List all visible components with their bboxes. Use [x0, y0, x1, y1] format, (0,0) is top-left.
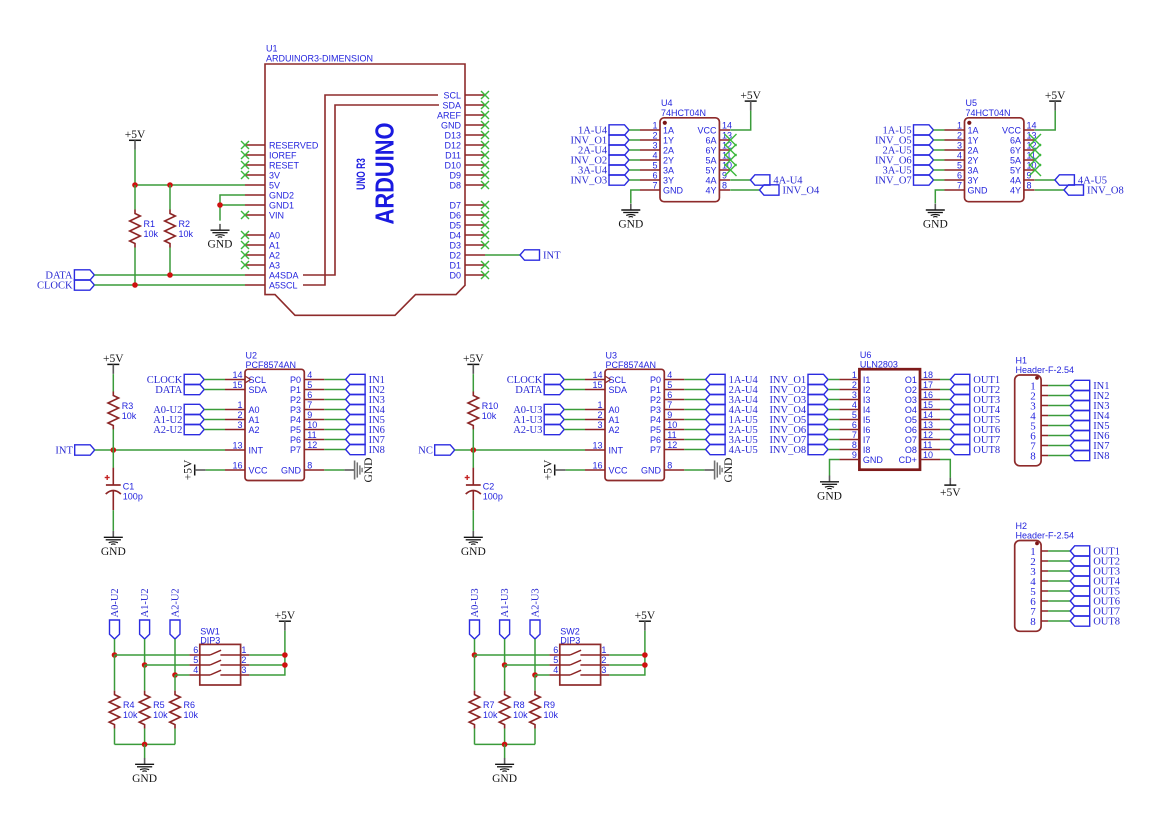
U1 pin A1	[245, 244, 265, 246]
capacitor C2 100p	[472, 468, 474, 485]
U4 pin 7 GND	[640, 189, 660, 191]
wire SW1 pin2	[249, 664, 285, 666]
SW2 pole 1 left lead pin 6	[549, 654, 570, 656]
SW2 pole 1 blade	[570, 650, 581, 655]
net port INV_O3	[609, 175, 629, 185]
net port A2-U2	[170, 620, 180, 639]
net port INV_O4	[760, 185, 780, 195]
net port CLOCK U3	[544, 374, 564, 384]
U5 pin 14 VCC	[1024, 129, 1035, 131]
net port A2-U2	[184, 424, 204, 434]
H1 pin 7	[1041, 445, 1048, 447]
svg-text:5: 5	[957, 161, 962, 171]
junction SW1 gnd	[142, 742, 148, 748]
svg-text:I2: I2	[863, 385, 871, 395]
wire +5V to R	[112, 374, 114, 392]
svg-text:6: 6	[307, 390, 312, 400]
svg-text:A1: A1	[269, 240, 280, 250]
svg-text:74HCT04N: 74HCT04N	[661, 108, 706, 118]
net port OUT5 at H2	[1070, 586, 1090, 596]
SW1 pole 2 blade	[210, 660, 221, 665]
wire D2 to INT	[485, 254, 520, 256]
wire SW1 pin1	[249, 654, 285, 656]
wire OUT6	[940, 429, 950, 431]
junction A1-U3/SW	[502, 662, 508, 668]
net port INV_O5	[914, 135, 934, 145]
wire C bottom	[472, 510, 474, 531]
U1 pin D6	[465, 214, 485, 216]
H1 pin 5	[1041, 425, 1048, 427]
no-connect U1 3V	[241, 171, 249, 179]
wire A1-U2 down	[144, 639, 146, 665]
IC U6 body	[859, 369, 920, 470]
svg-text:A2-U2: A2-U2	[153, 425, 182, 436]
svg-text:GND: GND	[461, 546, 486, 558]
svg-text:R2: R2	[179, 219, 191, 229]
net port 1A-U4 at U3	[706, 374, 726, 384]
U2 pin 8 GND	[304, 469, 324, 471]
junction SW2 p1	[642, 652, 648, 658]
wire 2A-U5	[684, 429, 705, 431]
junction +5V/R2	[167, 182, 173, 188]
net port INV_O4 at U6	[808, 404, 828, 414]
no-connect U1 A3	[241, 261, 249, 269]
svg-text:R5: R5	[153, 700, 165, 710]
ground U6	[829, 476, 831, 482]
no-connect U1 D4	[481, 231, 489, 239]
svg-text:3: 3	[237, 420, 242, 430]
svg-text:I8: I8	[863, 445, 871, 455]
wire U1 internal SCL	[303, 95, 438, 285]
svg-text:I7: I7	[863, 435, 871, 445]
U1 pin D8	[465, 184, 485, 186]
U6 pin 17 O2	[920, 389, 940, 391]
svg-text:10: 10	[667, 420, 677, 430]
U6 pin 11 O8	[920, 449, 940, 451]
svg-text:RESET: RESET	[269, 160, 300, 170]
wire A1-U3 down	[504, 639, 506, 665]
svg-text:100p: 100p	[123, 492, 143, 502]
svg-text:4: 4	[852, 400, 857, 410]
no-connect U1 AREF	[481, 111, 489, 119]
wire SW1 +5V rail	[249, 631, 285, 675]
U3 clock mark	[605, 376, 611, 383]
svg-text:INV_O3: INV_O3	[570, 176, 607, 187]
no-connect U1 A2	[241, 251, 249, 259]
wire OUT8	[940, 449, 950, 451]
net port A0-U2	[184, 404, 204, 414]
wire 3A-U5	[684, 439, 705, 441]
wire INV_O3 to U4	[629, 179, 640, 181]
SW2 pole 2 right lead pin 2	[580, 664, 609, 666]
U6 pin 1 I1	[839, 379, 859, 381]
resistor R1 10k	[130, 210, 141, 248]
net port INV_O5 at U6	[808, 414, 828, 424]
wire H1 IN8	[1048, 455, 1070, 457]
svg-text:15: 15	[592, 380, 602, 390]
net port IN2 at H1	[1070, 390, 1090, 400]
U1 pin AREF	[465, 114, 485, 116]
net port A0-U2	[110, 620, 120, 639]
svg-text:IOREF: IOREF	[269, 150, 297, 160]
net port OUT8 at H2	[1070, 616, 1090, 626]
wire 1A-U5	[684, 419, 705, 421]
ground U4	[630, 204, 632, 210]
wire OUT7	[940, 439, 950, 441]
svg-text:GND: GND	[968, 185, 989, 195]
wire CLOCK U3	[564, 379, 585, 381]
svg-text:P7: P7	[290, 445, 301, 455]
wire U4 VCC	[730, 111, 751, 130]
net port CLOCK U2	[184, 374, 204, 384]
net port DATA U3	[544, 384, 564, 394]
svg-text:P2: P2	[650, 395, 661, 405]
svg-text:14: 14	[923, 410, 933, 420]
net port OUT6 at U6	[950, 424, 970, 434]
wire R bottom A0-U2	[114, 729, 116, 745]
U6 pin 5 I5	[839, 419, 859, 421]
H1 pin 3	[1041, 405, 1048, 407]
wire 1A-U5 to U5	[934, 129, 945, 131]
net port IN4 at H1	[1070, 410, 1090, 420]
svg-text:5: 5	[667, 380, 672, 390]
net port 2A-U4 at U3	[706, 384, 726, 394]
wire H2 OUT2	[1048, 560, 1070, 562]
wire 4A-U5	[684, 449, 705, 451]
no-connect U1 VIN	[241, 211, 249, 219]
svg-text:10k: 10k	[122, 411, 137, 421]
svg-text:8: 8	[722, 181, 727, 191]
net port OUT4 at H2	[1070, 576, 1090, 586]
svg-text:INV_O8: INV_O8	[1087, 186, 1124, 197]
svg-text:8: 8	[1030, 450, 1036, 462]
ground SW1	[144, 758, 146, 764]
U5 pin 2 1Y	[945, 139, 965, 141]
svg-text:A2: A2	[249, 425, 260, 435]
svg-text:P0: P0	[650, 375, 661, 385]
wire 4A-U4	[730, 179, 750, 181]
H2 pin 5	[1041, 590, 1048, 592]
svg-text:6: 6	[667, 390, 672, 400]
svg-text:C2: C2	[483, 482, 495, 492]
U4 pin1 marker	[663, 121, 667, 125]
wire 4A-U4	[684, 409, 705, 411]
svg-text:U1: U1	[266, 44, 278, 54]
net port 1A-U4	[609, 125, 629, 135]
svg-text:O4: O4	[905, 405, 917, 415]
U3 pin 13 INT	[585, 449, 605, 451]
wire R bottom A0-U3	[474, 729, 476, 745]
svg-text:+5V: +5V	[125, 129, 146, 141]
svg-text:D3: D3	[449, 240, 461, 250]
U2 pin 12 P7	[304, 449, 324, 451]
svg-text:INV_O7: INV_O7	[875, 176, 912, 187]
wire INV_O4	[828, 409, 839, 411]
U5 pin 7 GND	[945, 189, 965, 191]
net port OUT6 at H2	[1070, 596, 1090, 606]
svg-text:A0: A0	[249, 405, 260, 415]
connector H1 body	[1015, 375, 1041, 466]
ground U3 cap	[472, 531, 474, 537]
svg-text:3: 3	[601, 665, 606, 675]
U2 pin 5 P1	[304, 389, 324, 391]
net port 3A-U5 at U3	[706, 434, 726, 444]
svg-text:5A: 5A	[705, 155, 716, 165]
junction A0-U2/SW	[112, 652, 118, 658]
svg-text:13: 13	[592, 441, 602, 451]
wire H1 IN1	[1048, 385, 1070, 387]
svg-text:ARDUINO: ARDUINO	[371, 123, 400, 225]
U6 pin 9 GND	[839, 459, 859, 461]
wire INV_O7	[828, 439, 839, 441]
wire INV_O2 to U4	[629, 159, 640, 161]
svg-text:+5V: +5V	[1045, 90, 1066, 102]
net port A1-U3	[544, 414, 564, 424]
svg-text:H2: H2	[1016, 521, 1028, 531]
svg-text:D9: D9	[449, 170, 461, 180]
SW2 pole 3 blade	[570, 670, 581, 675]
wire NC to C	[472, 450, 474, 468]
svg-text:+5V: +5V	[463, 353, 484, 365]
U2 pin 10 P5	[304, 429, 324, 431]
wire H1 IN5	[1048, 425, 1070, 427]
svg-text:O7: O7	[905, 435, 917, 445]
U5 pin 6 3Y	[945, 179, 965, 181]
svg-text:2: 2	[957, 131, 962, 141]
svg-text:17: 17	[923, 380, 933, 390]
no-connect U5 pin 11	[1029, 154, 1041, 166]
SW1 pole 1 blade	[210, 650, 221, 655]
H2 pin 4	[1041, 580, 1048, 582]
svg-text:GND: GND	[618, 219, 643, 231]
svg-text:6: 6	[553, 645, 558, 655]
switch SW2 body	[560, 644, 601, 685]
svg-text:O5: O5	[905, 415, 917, 425]
wire A2-U3 to SW2	[535, 674, 549, 676]
U5 pin 10 5Y	[1024, 169, 1035, 171]
IC U5 body	[965, 118, 1024, 202]
net port A2-U3	[530, 620, 540, 639]
svg-text:P4: P4	[290, 415, 301, 425]
svg-text:12: 12	[923, 430, 933, 440]
net port 3A-U4 at U3	[706, 394, 726, 404]
svg-text:U3: U3	[606, 351, 618, 361]
svg-text:R9: R9	[544, 700, 556, 710]
svg-text:GND: GND	[641, 465, 662, 475]
svg-text:U4: U4	[661, 98, 673, 108]
svg-text:1A: 1A	[968, 125, 979, 135]
resistor R9 10k	[530, 691, 541, 729]
svg-text:16: 16	[232, 461, 242, 471]
U4 pin 13 6A	[719, 139, 730, 141]
SW1 pole 1 right lead pin 1	[220, 654, 249, 656]
U5 pin 8 4Y	[1024, 189, 1035, 191]
wire U3 GND	[684, 469, 704, 471]
svg-text:P0: P0	[290, 375, 301, 385]
H2 pin 3	[1041, 570, 1048, 572]
svg-text:INT: INT	[55, 446, 73, 457]
U1 pin 3V	[245, 174, 265, 176]
IC U1 body outline	[265, 64, 465, 315]
wire INV_O5 to U5	[934, 139, 945, 141]
net port 3A-U4	[609, 165, 629, 175]
net port 2A-U4	[609, 145, 629, 155]
wire DATA	[94, 274, 245, 276]
no-connect U1 D13	[481, 131, 489, 139]
resistor R5 10k	[139, 691, 150, 729]
net port INV_O1	[609, 135, 629, 145]
U3 pin 2 A1	[585, 419, 605, 421]
U2 pin 2 A1	[225, 419, 245, 421]
svg-text:14: 14	[722, 121, 732, 131]
net port INV_O8	[1064, 185, 1084, 195]
wire INV_O6	[828, 429, 839, 431]
U3 pin 16 VCC	[585, 469, 605, 471]
wire A2-U2 to SW1	[175, 674, 189, 676]
wire U5 GND	[935, 190, 944, 203]
no-connect U4 pin 11	[725, 154, 737, 166]
svg-text:5Y: 5Y	[705, 165, 716, 175]
svg-text:GND: GND	[281, 465, 302, 475]
wire H1 IN3	[1048, 405, 1070, 407]
wire INV_O1 to U4	[629, 139, 640, 141]
U3 pin 11 P6	[664, 439, 684, 441]
no-connect U1 D10	[481, 161, 489, 169]
no-connect U4 pin 12	[725, 144, 737, 156]
svg-text:P6: P6	[650, 435, 661, 445]
svg-text:6A: 6A	[1010, 135, 1021, 145]
svg-text:R7: R7	[483, 700, 495, 710]
svg-text:CLOCK: CLOCK	[37, 281, 73, 292]
svg-text:1A: 1A	[663, 125, 674, 135]
U5 pin 9 4A	[1024, 179, 1035, 181]
svg-text:GND: GND	[441, 120, 462, 130]
no-connect U1 IOREF	[241, 151, 249, 159]
U1 pin D1	[465, 264, 485, 266]
svg-text:1: 1	[601, 645, 606, 655]
svg-text:GND: GND	[923, 219, 948, 231]
wire SW2 pin2	[609, 664, 645, 666]
wire H1 IN6	[1048, 435, 1070, 437]
net port IN7 at H1	[1070, 440, 1090, 450]
wire SW1 gnd stem	[144, 744, 146, 758]
svg-text:SDA: SDA	[442, 100, 461, 110]
no-connect U1 D11	[481, 151, 489, 159]
svg-text:7: 7	[307, 400, 312, 410]
wire 4A-U5	[1035, 179, 1055, 181]
svg-text:10k: 10k	[513, 710, 528, 720]
svg-text:GND2: GND2	[269, 190, 294, 200]
U4 pin 6 3Y	[640, 179, 660, 181]
switch SW1 body	[200, 644, 241, 685]
wire H2 OUT5	[1048, 590, 1070, 592]
svg-text:A1: A1	[609, 415, 620, 425]
svg-text:CD+: CD+	[899, 455, 917, 465]
U5 pin 13 6A	[1024, 139, 1035, 141]
svg-text:SDA: SDA	[609, 385, 628, 395]
svg-text:VCC: VCC	[1002, 125, 1022, 135]
svg-text:A0: A0	[269, 230, 280, 240]
wire H1 IN2	[1048, 395, 1070, 397]
net port 4A-U5	[1055, 175, 1075, 185]
wire A1-U3	[564, 419, 585, 421]
net port IN3 at U2	[346, 394, 366, 404]
wire INT to C	[112, 450, 114, 468]
U2 pin 11 P6	[304, 439, 324, 441]
svg-text:2: 2	[852, 380, 857, 390]
net port INV_O2 at U6	[808, 384, 828, 394]
wire H2 OUT3	[1048, 570, 1070, 572]
svg-text:DATA: DATA	[515, 385, 543, 396]
svg-text:14: 14	[592, 370, 602, 380]
net port A1-U2	[140, 620, 150, 639]
svg-text:A3: A3	[269, 260, 280, 270]
wire INV_O8	[828, 449, 839, 451]
svg-text:4Y: 4Y	[705, 185, 716, 195]
net port OUT4 at U6	[950, 404, 970, 414]
wire 3A-U5 to U5	[934, 169, 945, 171]
no-connect U1 D6	[481, 211, 489, 219]
svg-text:4: 4	[193, 665, 198, 675]
U6 pin 13 O6	[920, 429, 940, 431]
svg-text:GND: GND	[363, 458, 375, 483]
wire INV_O5	[828, 419, 839, 421]
svg-text:+5V: +5V	[103, 353, 124, 365]
svg-text:VIN: VIN	[269, 210, 284, 220]
U1 pin D10	[465, 164, 485, 166]
svg-text:IN8: IN8	[1093, 451, 1109, 462]
wire IN2	[324, 389, 345, 391]
U6 pin 16 O3	[920, 399, 940, 401]
wire INV_O7 to U5	[934, 179, 945, 181]
net port 4A-U4	[750, 175, 770, 185]
net port OUT2 at U6	[950, 384, 970, 394]
svg-text:P5: P5	[650, 425, 661, 435]
no-connect U5 pin 10	[1029, 164, 1041, 176]
resistor R4 10k	[109, 691, 120, 729]
svg-text:A0: A0	[609, 405, 620, 415]
junction NC/R	[471, 447, 477, 453]
wire A0-U3 down	[474, 639, 476, 655]
net port OUT1 at U6	[950, 374, 970, 384]
U5 pin1 marker	[967, 121, 971, 125]
wire R top A1-U2	[144, 665, 146, 691]
svg-text:A2-U3: A2-U3	[531, 588, 542, 617]
svg-text:P3: P3	[650, 405, 661, 415]
SW1 pole 2 right lead pin 2	[220, 664, 249, 666]
svg-text:11: 11	[923, 440, 932, 450]
net port A1-U2	[184, 414, 204, 424]
svg-text:D6: D6	[449, 210, 461, 220]
net port INV_O3 at U6	[808, 394, 828, 404]
U3 pin 10 P5	[664, 429, 684, 431]
svg-text:9: 9	[667, 410, 672, 420]
H2 pin 1	[1041, 550, 1048, 552]
svg-text:NC: NC	[418, 446, 433, 457]
svg-text:6: 6	[957, 171, 962, 181]
SW2 pole 3 left lead pin 4	[549, 674, 570, 676]
no-connect U1 A1	[241, 241, 249, 249]
IC U4 body	[660, 118, 719, 202]
H2 pin 2	[1041, 560, 1048, 562]
junction GND1/GND2	[217, 202, 223, 208]
svg-text:3A: 3A	[968, 165, 979, 175]
U6 pin 8 I8	[839, 449, 859, 451]
net port A0-U3	[470, 620, 480, 639]
svg-text:O8: O8	[905, 445, 917, 455]
wire R bottom A2-U2	[174, 729, 176, 745]
svg-text:4: 4	[667, 370, 672, 380]
